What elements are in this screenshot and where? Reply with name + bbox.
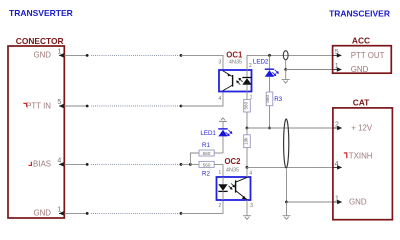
connector CAT box: [333, 98, 393, 220]
pin +12V 2 of CAT: [333, 121, 373, 132]
wire shield to ACC GND node: [285, 60, 287, 70]
svg-text:OC1: OC1: [226, 50, 243, 59]
wire CAT GND: [287, 201, 333, 203]
resistor R3 560: [265, 92, 282, 106]
svg-text:PTT OUT: PTT OUT: [351, 51, 385, 60]
node ACC GND: [284, 68, 287, 71]
junction dot GND2 left: [86, 212, 89, 215]
wire down to ground: [285, 70, 287, 80]
opto OC1 box: [219, 50, 252, 91]
wire GND2 dotted: [91, 212, 180, 214]
svg-text:5: 5: [57, 99, 61, 106]
wire GND1 solid left: [64, 54, 87, 56]
svg-text:GND: GND: [349, 198, 367, 207]
svg-text:10k: 10k: [244, 137, 249, 145]
title TRANSCEIVER: [329, 8, 390, 18]
svg-text:GND: GND: [33, 209, 51, 218]
pin GND 1 of CONECTOR: [33, 206, 64, 217]
svg-text:4N35: 4N35: [229, 60, 242, 66]
junction dot BIAS right: [180, 163, 183, 166]
junction dot GND2 right: [180, 212, 183, 215]
wire PTT IN solid left: [64, 105, 87, 107]
svg-text:R2: R2: [202, 170, 210, 177]
pin TXINH 4 of CAT: [333, 151, 373, 169]
wire GND1 dotted: [91, 54, 180, 56]
pin 1 OC2: [218, 170, 221, 176]
wire GND2 solid left: [64, 212, 87, 214]
pin PTT IN 5 of CONECTOR: [23, 99, 64, 110]
LED inside OC2: [218, 177, 235, 200]
svg-text:560: 560: [265, 95, 270, 103]
junction dot BIAS left: [86, 163, 89, 166]
node TXINH: [246, 166, 249, 169]
svg-text:560: 560: [203, 162, 211, 167]
svg-text:TXINH: TXINH: [349, 151, 373, 160]
wire down to ground 2: [286, 202, 288, 216]
wire R1 to LED1: [214, 152, 223, 154]
junction dot PTT IN left: [86, 105, 89, 108]
svg-text:OC2: OC2: [224, 157, 241, 166]
pin GND 1 of CONECTOR: [33, 48, 64, 59]
pin PTT OUT 5 of ACC: [333, 49, 385, 60]
junction dot LED2 tap: [268, 54, 271, 57]
pin GND 1 of CAT: [333, 195, 367, 206]
svg-text:1: 1: [218, 170, 221, 176]
svg-text:LED2: LED2: [253, 58, 269, 65]
svg-text:PTT IN: PTT IN: [26, 101, 51, 110]
ground above LED1: [219, 118, 227, 122]
pin 4 OC1: [218, 96, 221, 102]
wire +12V node to 10k: [246, 128, 248, 135]
svg-text:4: 4: [218, 96, 221, 102]
wire BIAS dotted: [91, 163, 180, 165]
svg-text:GND: GND: [351, 65, 369, 74]
svg-text:ACC: ACC: [352, 35, 370, 45]
svg-text:TRANSCEIVER: TRANSCEIVER: [329, 8, 390, 18]
node CAT GND: [285, 201, 288, 204]
svg-text:2: 2: [249, 63, 252, 69]
wire OC1 pin2 to ACC PTT OUT: [247, 55, 333, 70]
wire +12V rail: [247, 127, 333, 129]
svg-text:CONECTOR: CONECTOR: [16, 36, 64, 46]
wire R2 to OC2 pin1: [214, 164, 223, 177]
pin 3 OC1: [218, 60, 221, 66]
wire OC2 pin3 down: [246, 200, 248, 216]
svg-text:CAT: CAT: [353, 98, 370, 108]
resistor R2 560: [199, 161, 214, 177]
wire R3 down to +12V rail: [269, 106, 271, 128]
LED inside OC1: [236, 70, 252, 92]
svg-text:LED1: LED1: [200, 130, 216, 137]
wire PTT IN to OC1 pin4: [181, 92, 223, 107]
svg-text:4: 4: [249, 171, 252, 177]
svg-text:GND: GND: [33, 51, 51, 60]
wire GND2 to OC2 pin2: [181, 200, 223, 213]
connector ACC box: [333, 35, 392, 73]
pin 4 OC2: [249, 171, 252, 177]
resistor 10k: [244, 135, 251, 148]
wire TXINH rail: [247, 166, 333, 168]
svg-text:560: 560: [244, 101, 249, 109]
junction dot PTT IN right: [180, 105, 183, 108]
node 560/10k +12V: [246, 127, 249, 130]
wire GND1 to OC1 pin3: [181, 55, 223, 70]
svg-text:3: 3: [218, 60, 221, 66]
LED LED1: [200, 122, 232, 154]
resistor 560 below OC1: [244, 100, 251, 113]
transistor inside OC2: [236, 177, 247, 199]
transistor inside OC1: [223, 71, 233, 91]
wire PTT IN dotted: [91, 105, 180, 107]
svg-text:4N35: 4N35: [226, 167, 239, 173]
wire 560 to +12V node: [246, 112, 248, 128]
ground below OC2 pin3: [243, 216, 251, 220]
pin BIAS 4 of CONECTOR: [29, 157, 65, 168]
cable ellipse small ACC: [283, 51, 288, 60]
svg-text:4: 4: [57, 157, 61, 164]
ground ACC: [282, 80, 290, 84]
node R3/+12V: [268, 127, 271, 130]
pin 2 OC1: [249, 63, 252, 69]
pin GND 1 of ACC: [333, 63, 369, 74]
svg-text:2: 2: [218, 203, 221, 209]
junction dot GND1 left: [86, 54, 89, 57]
wire shield down to CAT GND node: [286, 169, 288, 202]
title TRANSVERTER: [9, 8, 73, 18]
svg-text:BIAS: BIAS: [33, 160, 51, 169]
wire BIAS node up to R1: [190, 153, 199, 164]
junction dot GND1 right: [180, 54, 183, 57]
wire OC2 pin4 up: [246, 167, 248, 177]
pin 3 OC2: [250, 203, 253, 209]
connector CONECTOR box: [8, 36, 64, 218]
svg-text:TRANSVERTER: TRANSVERTER: [9, 8, 73, 18]
pin 1 OC1: [250, 94, 253, 100]
LED LED2: [253, 55, 279, 92]
opto OC2 box: [217, 157, 251, 200]
svg-text:R3: R3: [274, 96, 282, 103]
wire BIAS to node: [181, 163, 190, 165]
node BIAS junction: [189, 163, 192, 166]
svg-text:3: 3: [250, 203, 253, 209]
wire BIAS node to R2: [190, 163, 199, 165]
ground CAT: [283, 216, 291, 220]
svg-text:1: 1: [57, 48, 61, 55]
resistor R1 560: [199, 142, 214, 156]
wire 10k to TXINH node: [246, 148, 248, 168]
pin 2 OC2: [218, 203, 221, 209]
wire OC1 pin1 down: [246, 92, 248, 100]
svg-text:+ 12V: + 12V: [351, 124, 373, 133]
svg-text:1: 1: [57, 206, 61, 213]
cable ellipse big CAT: [284, 119, 289, 168]
svg-text:R1: R1: [202, 142, 210, 149]
svg-text:560: 560: [203, 151, 211, 156]
wire ACC GND: [286, 69, 333, 71]
wire BIAS solid left: [64, 163, 87, 165]
